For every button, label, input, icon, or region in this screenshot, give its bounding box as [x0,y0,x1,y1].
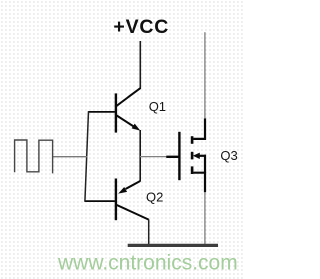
svg-text:Q1: Q1 [149,99,166,114]
transistor Q1 (NPN) [88,88,140,133]
Q3 gate lead [166,156,178,158]
wire Q2 collector to ground [148,219,150,246]
wire input to base bus [53,156,88,158]
wire emitter junction (Q1 emitter to Q2 emitter) [139,130,141,181]
Q2 base lead [85,200,115,202]
Q3 drain lead [193,118,205,138]
Q3 channel segment (source) [191,166,194,174]
MOSFET Q3 (N-channel) [166,118,206,192]
wire source down to ground [204,192,206,245]
wire gate (emitter node to Q3 gate) [140,156,167,158]
Q1 collector lead [117,88,141,106]
wire base bus vertical [85,111,89,202]
Q1 base lead [88,111,115,113]
Q3 body-source connection [204,155,206,173]
svg-text:Q3: Q3 [220,148,237,163]
Q2 collector lead [117,205,149,220]
Q2 emitter arrow [118,187,127,194]
square wave source symbol [15,140,53,173]
Q1 emitter lead [117,116,135,128]
Q3 gate bar [178,132,180,180]
Q3 body arrow [193,153,200,159]
Q3 channel segment (drain) [191,136,194,144]
Q3 channel segment (body) [191,152,194,160]
Q2 emitter lead [126,181,141,189]
Q3 source lead [193,173,205,193]
Q2 base bar [115,179,117,221]
svg-text:+VCC: +VCC [113,16,169,38]
wire drain up [204,32,206,118]
transistor Q2 (PNP) [85,179,149,221]
svg-text:www.cntronics.com: www.cntronics.com [57,252,238,275]
Q1 base bar [115,93,117,132]
wire VCC rail to Q1 collector [139,41,141,89]
Q3 body lead [198,155,206,157]
ground bar [128,244,218,247]
svg-text:Q2: Q2 [146,190,163,205]
Q1 emitter arrow [132,124,141,131]
